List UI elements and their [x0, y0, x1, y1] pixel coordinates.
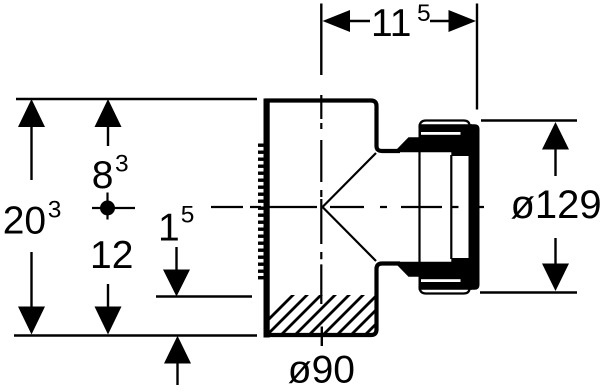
body left edge	[264, 99, 270, 338]
serrated rib teeth	[258, 144, 265, 280]
dimension 11.5 extension line left	[320, 4, 322, 76]
dimension label 11^5	[371, 0, 431, 45]
dimension 20.3 up arrow	[18, 99, 45, 180]
svg-text:5: 5	[181, 202, 195, 229]
svg-text:8: 8	[92, 154, 114, 197]
socket inner sleeve line left	[418, 152, 420, 262]
chamfer funnel line lower	[323, 207, 377, 261]
dimension label 1^5	[158, 202, 194, 250]
svg-text:11: 11	[371, 2, 412, 45]
dimension 11.5 left arrow	[323, 10, 371, 32]
svg-text:5: 5	[417, 0, 431, 27]
socket upper wall cross-section	[397, 124, 472, 156]
dimension o129 extension line bottom	[480, 291, 577, 294]
dimension 20.3 down arrow	[18, 252, 45, 335]
center point marker	[92, 193, 135, 220]
centerline tick at o90	[321, 327, 323, 347]
dimension o129 down arrow	[542, 238, 569, 291]
svg-text:12: 12	[90, 234, 133, 277]
socket upper cap line	[420, 121, 470, 128]
socket lower cap line	[420, 287, 470, 294]
svg-text:ø90: ø90	[288, 349, 355, 392]
dimension 1.5 up arrow	[164, 336, 191, 385]
hatching (pipe seal area)	[252, 292, 408, 336]
svg-text:20: 20	[3, 200, 46, 243]
vertical centerline (dash-dot)	[320, 95, 322, 304]
socket upper seal slit	[421, 132, 461, 135]
chamfer funnel line upper	[323, 153, 377, 207]
svg-text:3: 3	[48, 197, 62, 224]
socket lower wall cross-section	[397, 258, 472, 290]
dimension 1.5 down arrow	[163, 247, 190, 297]
extension line top-left (body top level)	[16, 98, 257, 100]
dimension 11.5 extension line right	[476, 4, 478, 110]
dimension o129 extension line top	[481, 119, 577, 122]
extension line small (seal depth level)	[156, 295, 252, 297]
dimension label 8^3	[92, 151, 129, 198]
dimension 12 down arrow	[95, 284, 122, 335]
body outline	[265, 101, 400, 336]
dimension label 20^3	[3, 197, 62, 243]
dimension 8.3 up arrow	[95, 99, 122, 146]
svg-text:ø129: ø129	[511, 183, 600, 227]
dimension 11.5 right arrow	[430, 10, 476, 32]
svg-text:3: 3	[115, 151, 129, 178]
dimension o129 up arrow	[542, 122, 569, 176]
svg-text:1: 1	[158, 207, 180, 250]
socket outer ring band	[469, 124, 480, 289]
horizontal centerline (dash-dot)	[211, 206, 484, 208]
extension line bottom-left (body bottom level)	[14, 334, 257, 337]
socket inner sleeve line right	[450, 155, 452, 259]
socket lower seal slit	[421, 279, 461, 282]
